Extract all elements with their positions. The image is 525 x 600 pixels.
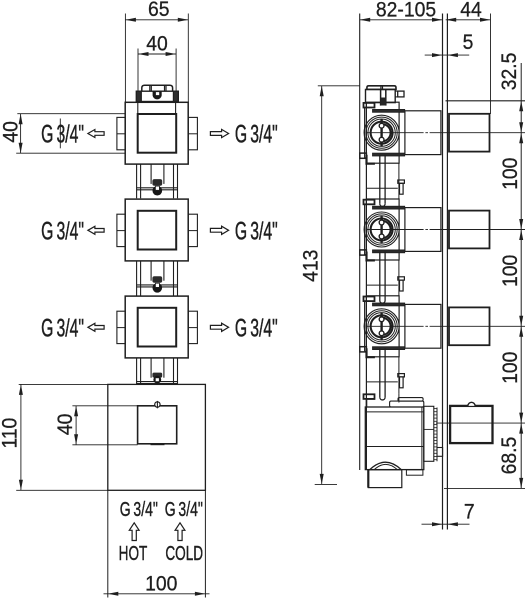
svg-text:HOT: HOT <box>119 542 148 564</box>
svg-text:G 3/4": G 3/4" <box>235 121 278 149</box>
svg-text:82-105: 82-105 <box>376 0 436 22</box>
svg-text:100: 100 <box>145 572 177 596</box>
svg-text:65: 65 <box>148 0 170 21</box>
svg-text:100: 100 <box>498 158 522 190</box>
svg-text:G 3/4": G 3/4" <box>165 498 203 521</box>
svg-text:5: 5 <box>463 30 474 54</box>
svg-text:100: 100 <box>498 255 522 287</box>
svg-text:110: 110 <box>0 418 22 449</box>
svg-text:G 3/4": G 3/4" <box>120 498 158 521</box>
svg-text:COLD: COLD <box>165 542 203 564</box>
svg-text:44: 44 <box>460 0 482 22</box>
svg-text:40: 40 <box>53 414 77 436</box>
svg-text:413: 413 <box>299 250 323 282</box>
svg-text:40: 40 <box>0 121 23 143</box>
svg-text:68.5: 68.5 <box>497 437 521 475</box>
svg-text:G 3/4": G 3/4" <box>235 315 278 343</box>
svg-text:40: 40 <box>146 31 168 55</box>
svg-text:32.5: 32.5 <box>497 53 521 91</box>
svg-text:7: 7 <box>464 499 475 523</box>
svg-text:G 3/4": G 3/4" <box>41 121 84 149</box>
svg-text:G 3/4": G 3/4" <box>235 218 278 246</box>
svg-text:G 3/4": G 3/4" <box>41 315 84 343</box>
svg-text:100: 100 <box>498 352 522 384</box>
svg-text:G 3/4": G 3/4" <box>41 218 84 246</box>
